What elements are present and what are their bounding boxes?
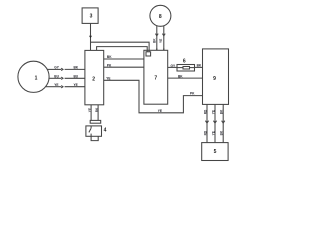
svg-text:BK: BK <box>197 64 202 68</box>
wire circle8 left to box7 <box>156 26 158 50</box>
connector arrow (filled) on box3 wire <box>89 36 92 39</box>
wire GY (box7 to fuse) <box>168 66 177 68</box>
fuse 6 <box>177 65 195 72</box>
box 9 <box>203 49 229 105</box>
svg-text:RD: RD <box>203 130 207 135</box>
svg-text:RD: RD <box>203 109 207 114</box>
box 5 <box>202 143 228 161</box>
svg-text:6: 6 <box>183 58 186 64</box>
connector chevron <box>61 77 63 79</box>
wire box9 to box5 right <box>222 104 224 142</box>
arrowhead <box>205 121 208 123</box>
wire box3 to box2 <box>90 23 92 50</box>
svg-text:1: 1 <box>35 76 38 82</box>
connector square on box 7 <box>146 52 151 56</box>
svg-text:3: 3 <box>90 14 93 20</box>
svg-text:BK: BK <box>153 38 157 43</box>
box 7 <box>144 50 168 104</box>
wire GY/BK (circle1 to box2, top) <box>47 68 61 70</box>
svg-text:7: 7 <box>154 75 157 81</box>
jumper loop under component 4 <box>91 136 98 140</box>
wire box9 to box5 middle <box>214 104 216 142</box>
connector chevron <box>61 68 63 70</box>
svg-text:BK: BK <box>74 66 79 70</box>
wire PK (box2 to box7) <box>104 66 144 68</box>
svg-text:BK: BK <box>95 107 99 112</box>
svg-text:PK: PK <box>190 92 195 96</box>
svg-text:5: 5 <box>214 149 217 155</box>
arrowhead <box>162 34 165 36</box>
entry nub <box>163 49 165 51</box>
wire branch box3-wire to box7 square <box>91 42 150 52</box>
svg-text:BK: BK <box>220 130 224 135</box>
wire box2 bottom left to component4 <box>90 105 92 121</box>
wire BK (fuse to box9) <box>195 66 203 68</box>
svg-text:BK: BK <box>220 109 224 114</box>
component 4 connector strip <box>90 120 101 123</box>
wire BK (box2 to box7) <box>104 58 144 60</box>
switch inside component 4 <box>90 126 92 128</box>
svg-text:YE: YE <box>88 108 92 112</box>
svg-text:BK: BK <box>107 55 112 59</box>
svg-text:BU: BU <box>54 75 59 79</box>
arrowhead <box>155 34 158 36</box>
circle 8 <box>150 5 171 26</box>
svg-text:YE: YE <box>158 109 162 113</box>
connector chevron <box>61 86 63 88</box>
wire circle8 right to box7 <box>163 26 165 51</box>
svg-text:BK: BK <box>178 75 183 79</box>
svg-text:PK: PK <box>107 63 112 67</box>
wire BK (box7 to box9) <box>168 77 203 79</box>
component 4 body <box>86 126 102 136</box>
wire YE/YE (circle1 to box2, bottom) <box>46 86 62 88</box>
wire box9 to box5 left <box>206 104 208 142</box>
box 2 (control unit) <box>85 50 104 104</box>
svg-text:2: 2 <box>92 76 95 82</box>
svg-text:BU: BU <box>74 75 79 79</box>
arrowhead <box>213 121 216 123</box>
svg-text:YE: YE <box>106 76 110 80</box>
svg-text:YE: YE <box>211 110 215 114</box>
wire YE (box2 to box9, long run) <box>104 80 203 113</box>
wire box2 bottom right to component4 <box>97 105 99 121</box>
svg-text:YE: YE <box>74 83 78 87</box>
wire box2 top to box7 square <box>97 47 148 52</box>
circle 1 (motor/component 1) <box>18 61 49 92</box>
box 3 <box>82 8 98 24</box>
svg-text:YE: YE <box>211 131 215 135</box>
svg-text:8: 8 <box>159 14 162 20</box>
entry nub <box>156 49 158 51</box>
svg-text:YE: YE <box>54 83 58 87</box>
svg-text:4: 4 <box>104 128 107 134</box>
svg-text:9: 9 <box>213 76 216 82</box>
arrowhead <box>222 121 225 123</box>
svg-text:YE: YE <box>159 39 163 43</box>
wire BU/BU (circle1 to box2, middle) <box>49 77 61 79</box>
